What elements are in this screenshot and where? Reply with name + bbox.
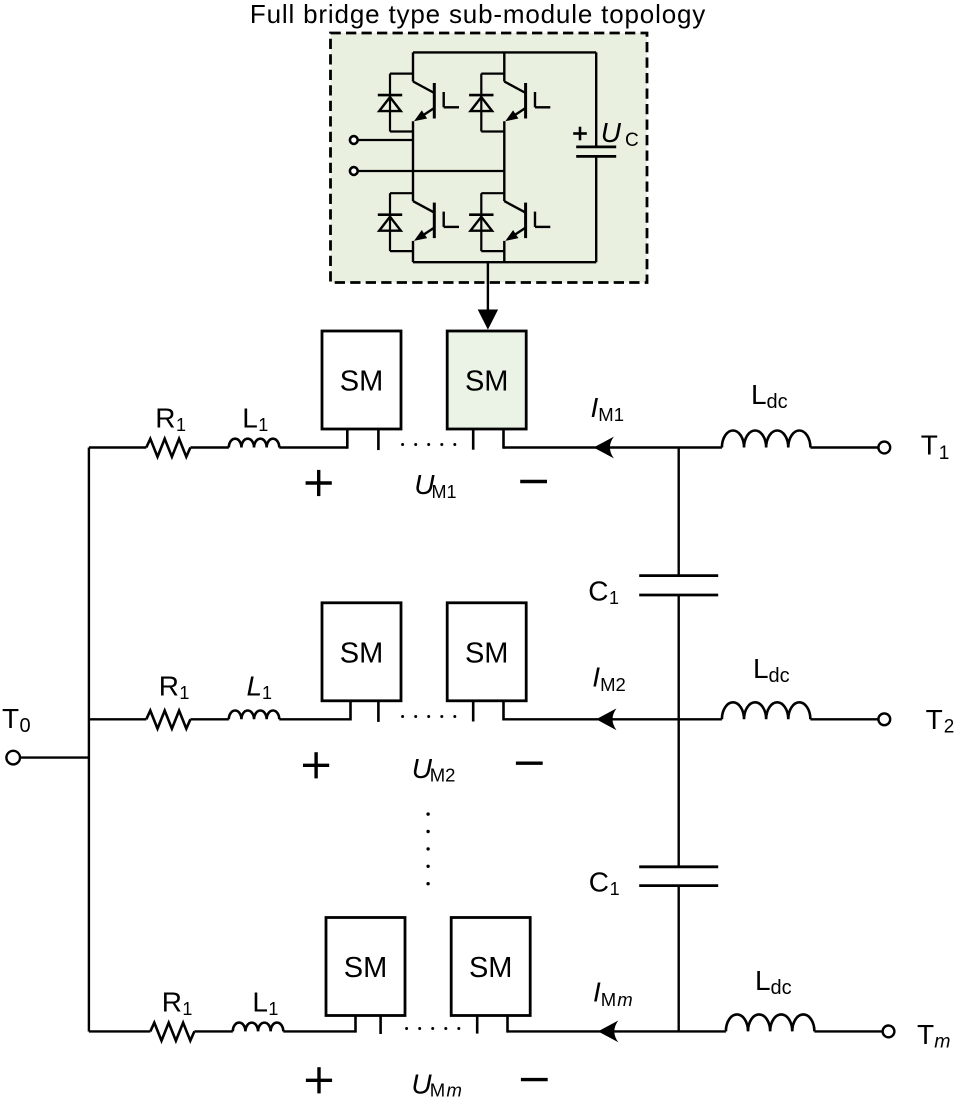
svg-text:L: L: [751, 379, 767, 410]
svg-text:1: 1: [176, 415, 186, 435]
svg-text:1: 1: [258, 415, 268, 435]
svg-text:m: m: [447, 1079, 462, 1100]
svg-text:I: I: [593, 977, 601, 1008]
svg-text:M1: M1: [432, 482, 457, 502]
svg-text:1: 1: [268, 999, 278, 1019]
svg-text:dc: dc: [767, 391, 788, 413]
svg-text:M1: M1: [598, 404, 624, 425]
svg-text:1: 1: [182, 999, 192, 1019]
svg-text:L: L: [247, 670, 263, 701]
svg-text:SM: SM: [344, 952, 388, 984]
svg-text:SM: SM: [340, 366, 384, 398]
svg-text:T: T: [921, 430, 938, 461]
svg-text:M: M: [601, 989, 616, 1010]
svg-text:C: C: [589, 866, 609, 897]
svg-text:M: M: [430, 1079, 445, 1100]
svg-text:R: R: [159, 670, 179, 701]
svg-text:R: R: [155, 403, 175, 434]
svg-text:I: I: [592, 662, 600, 693]
svg-text:SM: SM: [340, 637, 384, 669]
svg-text:I: I: [591, 392, 599, 423]
svg-text:T: T: [2, 703, 19, 734]
svg-text:R: R: [162, 986, 182, 1017]
svg-text:SM: SM: [469, 952, 513, 984]
svg-text:m: m: [617, 989, 632, 1010]
svg-text:2: 2: [944, 716, 955, 737]
svg-text:L: L: [753, 653, 769, 684]
svg-text:L: L: [252, 986, 268, 1017]
svg-text:L: L: [755, 965, 771, 996]
svg-text:U: U: [601, 117, 622, 148]
svg-text:dc: dc: [771, 977, 792, 999]
svg-text:M2: M2: [600, 674, 626, 695]
svg-text:L: L: [242, 403, 258, 434]
svg-text:M2: M2: [430, 765, 456, 786]
svg-text:Full bridge type sub-module to: Full bridge type sub-module topology: [250, 0, 706, 29]
svg-text:0: 0: [20, 715, 31, 737]
svg-text:SM: SM: [465, 637, 509, 669]
svg-text:m: m: [934, 1031, 950, 1053]
svg-text:1: 1: [179, 683, 189, 703]
svg-text:1: 1: [939, 443, 950, 464]
svg-text:dc: dc: [769, 665, 790, 687]
svg-text:T: T: [917, 1019, 934, 1050]
svg-text:1: 1: [610, 879, 620, 899]
svg-text:SM: SM: [465, 366, 509, 398]
svg-text:1: 1: [609, 588, 619, 608]
svg-text:T: T: [926, 704, 943, 735]
svg-text:C: C: [588, 576, 608, 607]
svg-text:1: 1: [262, 683, 272, 703]
svg-text:C: C: [625, 130, 639, 151]
